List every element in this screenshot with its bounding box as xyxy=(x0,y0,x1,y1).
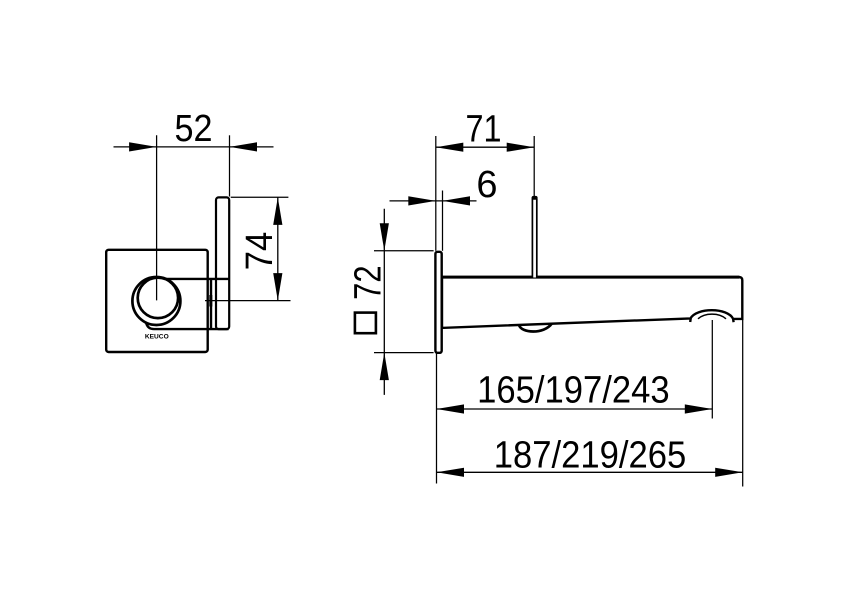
dimension 74: top extension line xyxy=(231,196,289,198)
dimension 72: dimension line xyxy=(383,209,385,395)
dimension 71: left arrow xyxy=(436,143,464,152)
dimension 74: bottom extension line xyxy=(205,300,291,302)
dimension 52: right arrow xyxy=(230,142,258,151)
dimension 6: right arrow xyxy=(443,196,471,205)
cartridge dome (under spout) xyxy=(519,324,552,332)
svg-text:71: 71 xyxy=(466,109,502,151)
svg-text:72: 72 xyxy=(347,265,389,300)
spout top edge (thick) xyxy=(442,276,740,279)
dimension 74: top arrow xyxy=(273,197,282,225)
aerator rim left foot xyxy=(689,318,692,322)
svg-text:KEUCO: KEUCO xyxy=(145,334,169,341)
dimension 165/197/243: left arrow xyxy=(437,404,465,413)
dimension 72: top arrow xyxy=(380,223,389,251)
dimension 72: bottom arrow xyxy=(380,353,389,381)
dimension 187/219/265: right arrow xyxy=(715,468,743,477)
dimension 6: right extension line xyxy=(442,191,444,251)
dimension 71: left extension line xyxy=(435,136,437,251)
svg-text:6: 6 xyxy=(476,164,497,206)
dimension 52: extension line (knob centerline) xyxy=(156,135,158,300)
dimension 71: right extension line xyxy=(533,136,535,196)
aerator rim right foot xyxy=(732,319,735,322)
svg-text:74: 74 xyxy=(239,232,281,271)
svg-text:165/197/243: 165/197/243 xyxy=(477,370,670,412)
wall plate (side view) xyxy=(435,252,441,353)
dimension 71: right arrow xyxy=(507,143,535,152)
dimension 52: dimension line xyxy=(114,146,274,148)
dimension 187/219/265: right extension line xyxy=(742,319,744,487)
dimension 52: extension line (lever right edge) xyxy=(229,135,231,196)
dimension 72: top extension line xyxy=(374,250,434,252)
control stick cap xyxy=(532,196,538,200)
spout body outline xyxy=(442,277,742,328)
dimension 165/197/243: left extension line xyxy=(436,354,438,484)
svg-text:187/219/265: 187/219/265 xyxy=(494,435,687,477)
dimension 52: left arrow xyxy=(129,142,157,151)
dimension 72: square symbol xyxy=(355,313,376,334)
wall plate (front view) xyxy=(106,250,208,352)
handle arm bottom edge xyxy=(146,323,229,330)
dimension 165/197/243: right extension line xyxy=(711,320,713,419)
dimension 6: left arrow xyxy=(408,196,436,205)
dimension 74: bottom arrow xyxy=(273,273,282,301)
dimension 74: dimension line xyxy=(277,197,279,300)
dimension 72: bottom extension line xyxy=(374,352,434,354)
dimension 165/197/243: right arrow xyxy=(685,404,713,413)
aerator dome inner arc (at tip) xyxy=(698,314,726,319)
svg-text:52: 52 xyxy=(175,108,213,150)
dimension 187/219/265: dimension line xyxy=(437,471,743,473)
knob outer circle xyxy=(132,277,180,325)
handle grip (vertical lever bar) xyxy=(216,197,229,329)
handle arm top edge xyxy=(166,278,229,280)
handle arm joint line xyxy=(210,279,212,329)
dimension 187/219/265: left arrow xyxy=(437,468,465,477)
dimension 6: dimension line xyxy=(390,200,477,202)
knob inner circle xyxy=(138,278,178,318)
handle arm joint thick section xyxy=(209,295,212,307)
control stick xyxy=(532,197,536,278)
dimension 71: dimension line xyxy=(436,146,534,148)
dimension 165/197/243: dimension line xyxy=(437,408,713,410)
